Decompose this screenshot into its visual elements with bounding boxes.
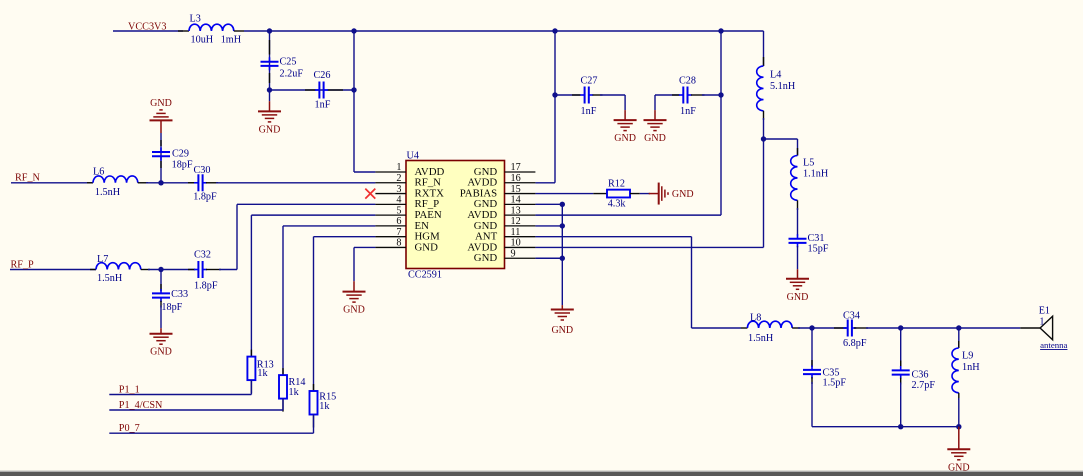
pin 5 PAEN [375, 214, 406, 216]
net label RF_N [11, 182, 93, 184]
wire top rail L3 to corner [234, 30, 244, 32]
pin 13 AVDD [505, 214, 536, 216]
wire R13 to P1_1 [250, 380, 252, 394]
node junction below C25 [267, 87, 272, 92]
wire L8 to C34 node [792, 327, 800, 329]
wire pin11 ANT to output [535, 236, 691, 238]
resistor R13 [250, 350, 252, 357]
capacitor C30 [197, 174, 199, 191]
svg-text:5: 5 [396, 205, 401, 216]
capacitor C33 [152, 292, 170, 294]
ground below C33 [160, 328, 162, 334]
wire pin13 AVDD vertical [720, 31, 722, 215]
svg-text:RF_P: RF_P [11, 259, 35, 270]
node junction C35 branch [809, 325, 814, 330]
svg-text:14: 14 [511, 195, 521, 206]
svg-text:C36: C36 [912, 370, 929, 381]
wire R15 to P0_7 [313, 415, 315, 434]
inductor L7 [90, 269, 96, 271]
capacitor C36 [892, 369, 910, 371]
wire C35 branch vertical [811, 328, 813, 367]
wire L9 to bottom rail [958, 393, 960, 400]
pin 9 GND [505, 257, 536, 259]
wire C36 branch vertical [900, 328, 902, 367]
pin 10 AVDD [505, 246, 536, 248]
wire C36 to bottom rail [900, 378, 902, 385]
wire pin7 to R15 [314, 236, 376, 238]
pin 11 ANT [505, 236, 536, 238]
svg-text:1.5nH: 1.5nH [748, 333, 774, 344]
svg-text:L8: L8 [750, 313, 761, 324]
ground below GND bus [561, 305, 563, 309]
svg-text:1nF: 1nF [680, 106, 696, 117]
svg-text:L7: L7 [97, 254, 108, 265]
svg-text:1k: 1k [319, 401, 330, 412]
svg-text:1nF: 1nF [581, 106, 597, 117]
ground below pin8 [353, 281, 355, 291]
capacitor C27 [584, 87, 586, 104]
node junction RF_N C29 [158, 180, 163, 185]
capacitor C26 [318, 82, 320, 99]
svg-text:C31: C31 [808, 233, 825, 244]
svg-text:10uH: 10uH [191, 35, 214, 46]
capacitor C32 [197, 261, 199, 278]
node junction C36 branch [898, 325, 903, 330]
net label P1_1 [109, 394, 251, 396]
wire C31 to ground [797, 246, 799, 269]
svg-text:7: 7 [396, 227, 401, 238]
wire L6 to C30 to pin2 [138, 182, 148, 184]
wire pin8 to ground [354, 246, 375, 248]
wire C34 leads [834, 327, 848, 329]
pin 4 RF_P [375, 203, 406, 205]
wire C33 branch [160, 270, 162, 292]
capacitor C28 [682, 87, 684, 104]
pin 15 PABIAS [505, 193, 536, 195]
svg-text:10: 10 [511, 238, 521, 249]
svg-text:GND: GND [787, 292, 809, 303]
resistor R12 [607, 190, 630, 198]
svg-text:4: 4 [396, 195, 401, 206]
node junction L9 bottom [956, 424, 961, 429]
svg-text:2.2uF: 2.2uF [280, 68, 304, 79]
svg-text:1mH: 1mH [221, 35, 242, 46]
svg-text:4.3k: 4.3k [608, 199, 627, 210]
svg-text:C25: C25 [280, 57, 297, 68]
svg-text:1.5nH: 1.5nH [97, 273, 123, 284]
svg-text:11: 11 [511, 227, 521, 238]
inductor L9 [952, 348, 959, 393]
ground below C25 [269, 90, 271, 101]
ground below C27 [624, 110, 626, 120]
svg-text:1.1nH: 1.1nH [803, 169, 829, 180]
wire pin5 to R13 [251, 214, 375, 216]
wire C27 C28 rail verticals [554, 31, 556, 183]
wire L5 branch [764, 138, 798, 140]
svg-text:15: 15 [511, 184, 521, 195]
svg-text:C33: C33 [171, 289, 188, 300]
svg-text:U4: U4 [407, 150, 419, 161]
wire C29 branch [160, 160, 162, 183]
svg-text:GND: GND [474, 252, 498, 264]
node junction C27 left [552, 92, 557, 97]
svg-text:C28: C28 [679, 76, 696, 87]
svg-text:P0_7: P0_7 [119, 423, 140, 434]
net label P1_4/CSN [109, 409, 283, 411]
wire pin15 PABIAS to R12 [535, 193, 593, 195]
svg-text:5.1nH: 5.1nH [770, 81, 796, 92]
svg-text:antenna: antenna [1040, 340, 1067, 350]
svg-text:GND: GND [672, 189, 694, 200]
svg-text:16: 16 [511, 173, 521, 184]
svg-text:C34: C34 [843, 311, 860, 322]
node junction L9 branch [956, 325, 961, 330]
node junction pin9 GND [560, 256, 565, 261]
capacitor C34 [847, 320, 849, 337]
resistor R14 [282, 368, 284, 375]
svg-text:1k: 1k [289, 387, 300, 398]
svg-text:3: 3 [396, 184, 401, 195]
inductor L3 [189, 24, 234, 31]
svg-text:GND: GND [644, 133, 666, 144]
inductor L8 [747, 321, 792, 328]
node junction C26 right [351, 87, 356, 92]
wire pin10 AVDD row [535, 246, 763, 248]
ground right of R12 [658, 183, 660, 205]
pin 17 GND [505, 171, 536, 173]
svg-text:1nF: 1nF [315, 100, 331, 111]
no-connect X on pin 3 [365, 189, 375, 199]
antenna E1 [1040, 316, 1053, 340]
net label RF_P [10, 269, 96, 271]
svg-text:18pF: 18pF [172, 160, 193, 171]
svg-text:E1: E1 [1039, 306, 1050, 317]
node junction pin12 GND [560, 223, 565, 228]
svg-text:17: 17 [511, 162, 521, 173]
wire L9 branch [958, 328, 960, 348]
node junction VCC at pin13 branch [718, 28, 723, 33]
ground below output network [958, 427, 960, 450]
svg-text:1: 1 [1039, 317, 1044, 328]
svg-text:1.8pF: 1.8pF [194, 281, 218, 292]
wire C28 segment [655, 94, 680, 96]
svg-text:2: 2 [396, 173, 401, 184]
svg-text:GND: GND [343, 305, 365, 316]
svg-text:1.5pF: 1.5pF [823, 378, 847, 389]
resistor R15 [313, 384, 315, 391]
svg-text:1nH: 1nH [962, 362, 980, 373]
svg-text:GND: GND [415, 241, 439, 253]
svg-text:CC2591: CC2591 [408, 270, 442, 281]
svg-text:C27: C27 [581, 76, 598, 87]
svg-text:R12: R12 [608, 178, 625, 189]
svg-text:6.8pF: 6.8pF [843, 338, 867, 349]
ground above C29 [160, 140, 162, 146]
wire C34 right [854, 327, 868, 329]
ground below C31 [797, 269, 799, 279]
wire antenna lead [1020, 327, 1040, 329]
svg-text:L9: L9 [962, 351, 973, 362]
pin 3 RXTX [375, 193, 406, 195]
svg-text:L5: L5 [803, 157, 814, 168]
svg-text:2.7pF: 2.7pF [912, 380, 936, 391]
wire R14 to P1_4 [282, 399, 284, 410]
pin 14 GND [505, 203, 536, 205]
op-amp U4 CC2591 body [406, 161, 505, 269]
svg-text:1: 1 [396, 162, 401, 173]
wire L4 branch from top rail [763, 31, 765, 66]
svg-text:1k: 1k [257, 368, 268, 379]
wire C30 right to pin2 [206, 182, 218, 184]
svg-text:P1_4/CSN: P1_4/CSN [119, 400, 163, 411]
wire C27 segment [555, 94, 580, 96]
svg-text:VCC3V3: VCC3V3 [128, 21, 167, 32]
pin 2 RF_N [375, 182, 406, 184]
bottom scrollbar [0, 471, 1083, 472]
capacitor C29 [152, 151, 170, 153]
node junction VCC at C27 branch [552, 28, 557, 33]
svg-text:GND: GND [150, 347, 172, 358]
pin 16 AVDD [505, 182, 536, 184]
wire L4 bottom to junction [763, 111, 765, 120]
svg-text:GND: GND [614, 133, 636, 144]
node junction pin14 GND [560, 202, 565, 207]
inductor L6 [87, 182, 93, 184]
svg-text:C26: C26 [314, 70, 331, 81]
wire bottom rail [812, 426, 959, 428]
node junction C28 right [718, 92, 723, 97]
svg-text:L6: L6 [93, 166, 104, 177]
svg-text:9: 9 [511, 248, 516, 259]
wire C32 right up to pin4 [206, 269, 221, 271]
svg-text:C29: C29 [172, 149, 189, 160]
svg-text:1.8pF: 1.8pF [193, 191, 217, 202]
capacitor C25 [261, 61, 279, 63]
svg-text:GND: GND [259, 124, 281, 135]
pin 1 AVDD [375, 171, 406, 173]
wire R12 right to ground [630, 193, 640, 195]
svg-text:GND: GND [551, 325, 573, 336]
node junction RF_P C33 [158, 267, 163, 272]
svg-text:12: 12 [511, 216, 521, 227]
inductor L5 [791, 156, 798, 201]
inductor L4 [757, 66, 764, 111]
svg-text:6: 6 [396, 216, 401, 227]
capacitor C31 [789, 238, 807, 240]
svg-text:GND: GND [150, 98, 172, 109]
svg-text:L4: L4 [770, 70, 781, 81]
svg-text:15pF: 15pF [808, 244, 829, 255]
node junction VCC at C25 [267, 28, 272, 33]
svg-text:13: 13 [511, 205, 521, 216]
wire C35 to bottom rail [811, 377, 813, 384]
svg-text:1.5nH: 1.5nH [95, 187, 121, 198]
wire pin1 vertical [353, 31, 355, 172]
net label P0_7 [109, 432, 313, 434]
wire C28 right to AVDD vertical [691, 94, 705, 96]
capacitor C35 [803, 369, 821, 371]
wire C25 branch [269, 31, 271, 90]
node junction C36 bottom [898, 424, 903, 429]
svg-text:C30: C30 [194, 165, 211, 176]
wire VCC3V3 top rail left of L3 [113, 30, 183, 32]
svg-text:L3: L3 [190, 14, 201, 25]
svg-text:C32: C32 [194, 250, 211, 261]
svg-text:P1_1: P1_1 [119, 384, 140, 395]
svg-text:18pF: 18pF [161, 302, 182, 313]
node junction below L4 [761, 136, 766, 141]
wire C25 node to C26 [270, 89, 355, 91]
wire pin6 to R14 [283, 225, 375, 227]
svg-text:8: 8 [396, 238, 401, 249]
pin 7 HGM [375, 236, 406, 238]
ground below C28 [654, 95, 656, 110]
pin 12 GND [505, 225, 536, 227]
pin 8 GND [375, 246, 406, 248]
wire C27 to ground corner [593, 94, 603, 96]
node junction VCC at pin1 branch [351, 28, 356, 33]
wire GND bus pin14 pin12 pin9 [535, 203, 562, 205]
svg-text:RF_N: RF_N [15, 172, 41, 183]
wire L5 to C31 [797, 200, 799, 210]
wire pin16 AVDD to C27 rail [535, 182, 555, 184]
pin 6 EN [375, 225, 406, 227]
wire L7 to C32 [141, 269, 150, 271]
wire C33 to ground [160, 301, 162, 308]
